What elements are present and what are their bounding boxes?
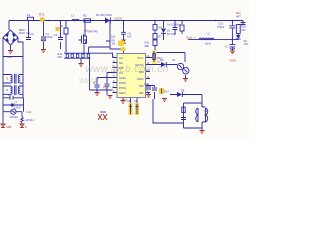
svg-text:2n2: 2n2 xyxy=(111,36,116,39)
svg-text:www.lpcb.com.cn: www.lpcb.com.cn xyxy=(86,64,169,75)
svg-text:GND: GND xyxy=(230,58,236,62)
svg-text:D1 BYV26C: D1 BYV26C xyxy=(96,13,113,17)
svg-text:R17: R17 xyxy=(164,90,169,94)
svg-text:470uF: 470uF xyxy=(217,25,225,29)
svg-text:1uF: 1uF xyxy=(127,35,132,39)
svg-text:15V: 15V xyxy=(244,42,249,46)
svg-text:PWG: PWG xyxy=(119,86,127,90)
svg-text:L1: L1 xyxy=(71,14,75,18)
svg-text:C2: C2 xyxy=(31,32,35,36)
svg-text:1 Ac: 1 Ac xyxy=(26,110,32,114)
svg-text:D8: D8 xyxy=(181,89,185,93)
svg-text:68k: 68k xyxy=(145,44,150,48)
svg-text:F1: F1 xyxy=(27,13,31,17)
svg-text:GEN: GEN xyxy=(119,91,126,95)
svg-text:D5: D5 xyxy=(160,58,164,62)
svg-text:PWG: PWG xyxy=(119,81,127,85)
svg-text:+C: +C xyxy=(225,44,229,48)
svg-text:GND: GND xyxy=(6,126,12,129)
svg-text:R2: R2 xyxy=(83,14,87,18)
svg-text:Rsn: Rsn xyxy=(236,11,241,15)
svg-text:GND: GND xyxy=(137,77,145,81)
svg-text:1M: 1M xyxy=(112,43,115,46)
svg-text:220VAC: 220VAC xyxy=(10,116,19,119)
svg-text:+310V: +310V xyxy=(114,16,123,20)
svg-text:C12: C12 xyxy=(144,82,149,86)
svg-text:R1: R1 xyxy=(60,24,64,28)
svg-text:GND: GND xyxy=(119,76,127,80)
svg-text:0R3: 0R3 xyxy=(58,56,63,59)
svg-text:N: N xyxy=(25,126,27,129)
svg-text:D3: D3 xyxy=(167,29,171,33)
svg-text:RT1: RT1 xyxy=(39,13,45,17)
svg-text:R10: R10 xyxy=(103,86,108,90)
svg-text:VCC: VCC xyxy=(137,56,144,60)
svg-text:IRF740: IRF740 xyxy=(88,30,98,34)
svg-text:4R7: 4R7 xyxy=(236,15,241,19)
svg-text:10uH: 10uH xyxy=(205,41,211,45)
svg-text:10k: 10k xyxy=(241,28,246,32)
svg-text:U2: U2 xyxy=(172,58,176,62)
svg-text:100uF: 100uF xyxy=(46,35,54,39)
svg-text:R7: R7 xyxy=(159,35,163,39)
svg-text:8R: 8R xyxy=(204,113,207,117)
svg-text:BYV26: BYV26 xyxy=(167,32,176,36)
svg-text:C4: C4 xyxy=(54,33,58,37)
svg-text:220nF: 220nF xyxy=(14,107,21,110)
svg-text:1uF: 1uF xyxy=(8,94,13,97)
svg-text:HSC V4: HSC V4 xyxy=(19,31,30,35)
svg-text:+12V(0.2: +12V(0.2 xyxy=(24,119,34,122)
svg-text:www: www xyxy=(79,75,99,85)
svg-text:Out1 +: Out1 + xyxy=(186,35,195,39)
